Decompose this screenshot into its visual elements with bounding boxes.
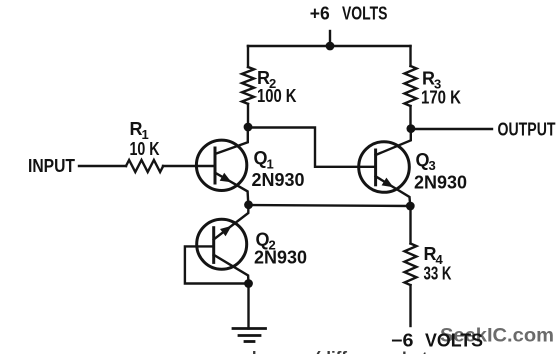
svg-text:2N930: 2N930 (414, 173, 467, 193)
svg-text:33 K: 33 K (424, 264, 452, 284)
wire R1 to Q1 base (163, 165, 215, 167)
resistor R3 (405, 66, 417, 106)
label R4 value 33 K (424, 264, 452, 284)
label +6 VOLTS (310, 4, 388, 24)
Q3 emitter lead (376, 176, 411, 206)
Q1 emitter arrow (220, 173, 232, 183)
Q2 body circle (197, 219, 247, 269)
Q3 base bar (374, 150, 377, 185)
svg-text:VOLTS: VOLTS (342, 4, 388, 24)
resistor R4 (405, 244, 417, 286)
svg-text:bet: bet (402, 349, 428, 354)
wire Q2 base to collector tie (185, 246, 249, 283)
node C (Q1/Q2 emitters) (244, 200, 253, 209)
label -6 VOLTS (391, 331, 483, 351)
svg-text:Q: Q (416, 150, 430, 170)
Q3 emitter arrow (382, 178, 394, 188)
wire +6V stub (329, 31, 331, 46)
wire R4 top lead (409, 206, 411, 244)
svg-text:Q: Q (254, 148, 268, 168)
svg-text:Q: Q (256, 230, 270, 250)
node A (R2/Q1 collector) (244, 123, 253, 132)
svg-text:100 K: 100 K (257, 86, 297, 106)
label OUTPUT (498, 120, 556, 140)
ground bar 1 (233, 327, 266, 330)
transistor Q2 (diode-connected, emitter up) (197, 205, 249, 284)
wire emitter bus node C to node D (249, 205, 411, 206)
resistor R1 (126, 160, 163, 172)
node D (Q3 emitter/R4) (406, 202, 415, 211)
wire top rail (248, 45, 411, 47)
transistor Q3 (359, 129, 411, 206)
resistor R2 (242, 67, 254, 104)
Q3 body circle (359, 142, 410, 193)
label Q3 (416, 150, 436, 173)
svg-text:10 K: 10 K (130, 139, 160, 159)
svg-text:2N930: 2N930 (252, 170, 305, 190)
wire R3 bottom lead to node B (409, 106, 411, 129)
ground (233, 329, 266, 342)
wire input lead (79, 165, 126, 167)
label R3 value 170 K (421, 88, 461, 108)
Q1 base bar (214, 148, 217, 183)
label Q2 type 2N930 (254, 248, 307, 268)
svg-text:INPUT: INPUT (28, 156, 75, 176)
label INPUT (28, 156, 75, 176)
svg-text:(diff: (diff (315, 348, 347, 354)
svg-text:2N930: 2N930 (254, 248, 307, 268)
caption fragment (cut off at bottom) (216, 348, 428, 354)
svg-text:+6: +6 (310, 4, 330, 24)
svg-text:−6: −6 (391, 331, 414, 351)
label R3 (422, 69, 441, 92)
ground bar 3 (245, 340, 254, 343)
label Q2 (256, 230, 276, 253)
wire ground stem (247, 284, 249, 329)
Q1 collector lead (215, 127, 248, 154)
label Q1 (254, 148, 274, 172)
ground bar 2 (239, 334, 260, 337)
svg-text:170 K: 170 K (421, 88, 461, 108)
node B (R3/Q3 collector/output) (407, 124, 416, 133)
svg-text:VOLTS: VOLTS (425, 331, 483, 351)
Q2 base bar (212, 228, 215, 263)
label R1 (130, 119, 149, 142)
Q2 collector lead (214, 255, 249, 284)
watermark SeekIC.com (440, 326, 554, 347)
svg-text:3: 3 (429, 158, 436, 173)
Q2 emitter lead (214, 205, 249, 240)
label R2 (257, 68, 276, 91)
wire node A to Q3 base (248, 128, 376, 167)
wire output lead (411, 128, 492, 130)
Q1 body circle (196, 140, 246, 190)
Q1 emitter lead (215, 173, 248, 205)
wire R3 top lead (409, 46, 411, 66)
wire R2 bottom lead to node A (247, 104, 249, 128)
node E (Q2 collector/ground) (244, 279, 253, 288)
label R1 value 10 K (130, 139, 160, 159)
svg-text:OUTPUT: OUTPUT (498, 120, 556, 140)
Q2 emitter arrow (220, 226, 232, 236)
wire R2 top lead (247, 46, 249, 67)
label R4 (424, 244, 444, 267)
label Q3 type 2N930 (414, 173, 467, 193)
label Q1 type 2N930 (252, 170, 305, 190)
wire R4 bottom lead (409, 285, 411, 326)
Q3 collector lead (376, 129, 411, 155)
svg-text:number: number (216, 348, 279, 354)
node +6V junction (326, 42, 335, 51)
label R2 value 100 K (257, 86, 297, 106)
transistor Q1 (196, 127, 248, 205)
